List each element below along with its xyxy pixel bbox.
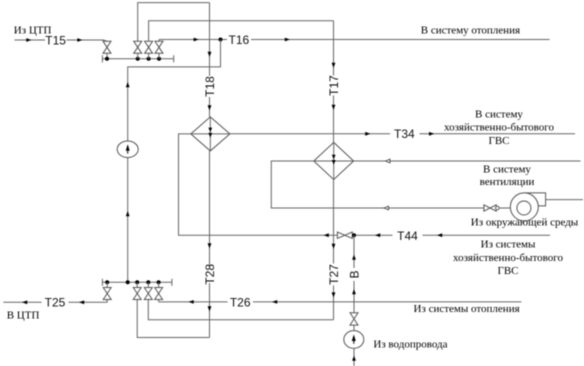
svg-text:хозяйственно-бытового: хозяйственно-бытового — [444, 122, 555, 134]
arrow on T34 — [429, 132, 434, 136]
svg-text:Т28: Т28 — [203, 264, 217, 285]
svg-text:Т18: Т18 — [203, 76, 217, 97]
arrow down on T18 — [208, 52, 212, 57]
pump P1 (circulation pump) — [117, 141, 138, 158]
svg-text:В систему: В систему — [475, 109, 523, 121]
valve V1B (bottom row) — [103, 282, 111, 302]
tick left end of top header — [101, 55, 103, 62]
arrow left on T44 near crossing — [324, 233, 329, 237]
svg-text:Т17: Т17 — [327, 75, 341, 96]
label В систему вентиляции — [480, 164, 535, 188]
arrow on T34 — [365, 132, 370, 136]
svg-text:Из окружающей среды: Из окружающей среды — [471, 217, 579, 229]
svg-text:хозяйственно-бытового: хозяйственно-бытового — [453, 252, 564, 264]
svg-text:Т27: Т27 — [327, 264, 341, 285]
wire from water supply — [353, 348, 355, 366]
wire vent supply line — [354, 160, 581, 162]
circle on valve VF stem — [496, 206, 500, 210]
svg-text:Т34: Т34 — [394, 127, 415, 141]
heat exchanger HX2 — [314, 142, 354, 179]
wire T16 line to heating system — [159, 40, 550, 42]
label Из системы хозяйственно-бытового ГВС — [453, 239, 564, 278]
svg-text:В: В — [347, 270, 361, 278]
valve VF (horizontal, fan intake) — [484, 205, 496, 211]
wire T44 line right section — [352, 234, 550, 236]
svg-text:ГВС: ГВС — [488, 135, 509, 147]
wire valve to pump P2 — [353, 325, 355, 331]
arrow up on B riser — [352, 289, 356, 294]
wire fan outlet to environment — [546, 199, 583, 201]
arrow up on water supply — [352, 356, 356, 361]
tick right end of bottom header — [171, 279, 173, 286]
svg-text:Из системы отопления: Из системы отопления — [414, 303, 520, 315]
svg-text:вентиляции: вентиляции — [480, 176, 535, 188]
check valve VB — [350, 313, 358, 325]
wire T27 bottom elbow to valve V3B — [148, 300, 333, 320]
valve V3 (top row) — [145, 41, 153, 53]
tick left end of bottom header — [101, 279, 103, 286]
arrow on T16 — [194, 38, 199, 42]
node dot V1/header — [105, 57, 109, 61]
arrow down on T28 — [208, 243, 212, 248]
node dot V3B/header — [146, 280, 150, 284]
wire stub valve V4 — [158, 53, 160, 59]
wire stub valve V3 — [148, 53, 150, 59]
arrow down on T27 — [332, 292, 336, 297]
node dot V4B/header — [157, 280, 161, 284]
arrow left on T25 — [22, 300, 27, 304]
wire T18 drop pipe — [209, 3, 211, 117]
node dot V4/header — [157, 57, 161, 61]
wire T15 supply line — [15, 40, 108, 41]
wire top header manifold — [102, 58, 173, 60]
node dot T44/B riser — [352, 233, 356, 237]
node dot pump riser/header — [126, 280, 130, 284]
wire T27 return pipe from HX2 — [333, 180, 335, 264]
open arrow on vent supply — [386, 159, 391, 163]
svg-text:В систему отопления: В систему отопления — [421, 25, 520, 37]
svg-text:ГВС: ГВС — [497, 265, 518, 277]
svg-text:Т26: Т26 — [230, 295, 251, 309]
svg-text:В ЦТП: В ЦТП — [7, 310, 40, 322]
arrow left on T25 — [79, 300, 84, 304]
node dot V2B/header — [135, 280, 139, 284]
arrow up on pump riser — [126, 82, 130, 87]
node dot V1B/header — [105, 280, 109, 284]
arrow down on T18 — [208, 105, 212, 110]
wire stub valve V1 to header — [106, 53, 108, 59]
svg-text:Т44: Т44 — [397, 229, 418, 243]
valve V4 (top row) — [155, 41, 163, 53]
wire T17 drop pipe — [333, 21, 335, 143]
arrow down on T17 — [332, 105, 336, 110]
svg-text:Т16: Т16 — [229, 33, 250, 47]
arrow up on B riser — [352, 255, 356, 260]
svg-text:В систему: В систему — [483, 164, 531, 176]
svg-text:Из водопровода: Из водопровода — [373, 339, 447, 351]
node dot V3/header — [147, 57, 151, 61]
arrow on T16 — [285, 38, 290, 42]
wire riser from V3 up and across to T17 drop — [149, 21, 334, 42]
wire T26 line from heating system — [159, 301, 522, 303]
node dot T16/branch — [219, 38, 223, 42]
wire B riser (make-up water) — [353, 235, 355, 268]
node dot V2/header — [136, 57, 140, 61]
svg-text:Из системы: Из системы — [481, 239, 536, 251]
wire branch from T16 down-left to pump riser — [128, 40, 221, 283]
arrow left on T44 — [437, 233, 442, 237]
svg-text:Из ЦТП: Из ЦТП — [14, 25, 52, 37]
wire bottom header manifold — [102, 281, 171, 283]
wire T34 line from HX1 to DHW supply — [230, 133, 575, 135]
valve VT44 (horizontal) — [337, 232, 352, 238]
arrow down on T27 — [332, 244, 336, 249]
wire T25 line to CTP — [3, 300, 107, 303]
label В систему хозяйственно-бытового ГВС — [444, 109, 555, 147]
arrow down on T17 — [332, 63, 336, 68]
open arrow on fan intake line — [384, 206, 389, 210]
wire riser from V2 up and across to T18 drop — [138, 3, 210, 42]
arrow left on T44 — [375, 233, 380, 237]
wire T28 return pipe from HX1 — [209, 151, 211, 266]
valve V4B (bottom row) — [155, 282, 163, 302]
wire stub valve V2 — [137, 53, 139, 59]
arrow on T15 — [26, 38, 31, 42]
svg-text:Т25: Т25 — [45, 296, 66, 310]
valve V1 (top row) — [103, 41, 111, 53]
pump P2 (make-up pump) — [344, 331, 364, 349]
wire valve to fan — [499, 207, 510, 209]
arrow up on pump riser — [126, 211, 130, 216]
tick right end of top header — [173, 55, 175, 62]
fan F1 — [510, 193, 545, 221]
wire T28 bottom elbow to valve V2B — [137, 300, 209, 338]
heat exchanger HX1 — [191, 117, 230, 151]
arrow on T15 — [77, 38, 82, 42]
arrow down on T28 — [208, 306, 212, 311]
arrow left on T26 — [189, 300, 194, 304]
wire vent loop: HX2 left port to fan intake — [271, 161, 484, 208]
arrow left on T26 — [272, 300, 277, 304]
valve V2B (bottom row) — [133, 282, 141, 299]
valve V2 (top row) — [134, 41, 142, 53]
wire T44 return riser to HX1 left port — [179, 134, 338, 235]
valve V3B (bottom row) — [144, 282, 152, 299]
